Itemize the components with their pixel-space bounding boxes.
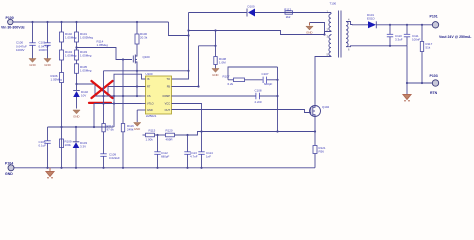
svg-text:1000V: 1000V bbox=[39, 48, 48, 52]
resistor R103 bbox=[75, 42, 92, 60]
connector P104 bbox=[5, 162, 14, 177]
secondary stubs bbox=[346, 22, 353, 25]
connector P103 bbox=[430, 74, 439, 95]
resistor R102 bbox=[60, 22, 77, 42]
wire return vertical bbox=[406, 46, 408, 94]
node Q100 source bbox=[136, 70, 138, 72]
svg-text:1nF: 1nF bbox=[206, 155, 211, 159]
svg-text:VTLO: VTLO bbox=[147, 102, 154, 106]
wire zener node to opto bbox=[77, 84, 96, 96]
primary winding 2 (aux) bbox=[330, 34, 332, 35]
zener D103 bbox=[73, 127, 88, 168]
svg-text:100nF: 100nF bbox=[412, 38, 421, 42]
ground power port (C101) bbox=[44, 59, 51, 68]
connector P100 bbox=[1, 16, 25, 30]
wire startup rail across bbox=[104, 70, 189, 72]
svg-text:1.05Meg: 1.05Meg bbox=[51, 78, 63, 82]
resistor R101 bbox=[75, 22, 94, 42]
svg-text:1.0M: 1.0M bbox=[219, 61, 226, 65]
svg-text:Vout 24V @ 250mA.: Vout 24V @ 250mA. bbox=[439, 35, 472, 39]
svg-text:TO: TO bbox=[167, 77, 171, 81]
svg-text:GND: GND bbox=[212, 73, 218, 77]
wire feedback vertical bus bbox=[277, 67, 279, 132]
capacitor C107 bbox=[262, 72, 278, 86]
svg-text:GND: GND bbox=[306, 31, 312, 35]
resistor R111 bbox=[102, 71, 114, 154]
svg-text:RT: RT bbox=[147, 85, 151, 89]
node dots on bottom rail bbox=[46, 167, 202, 169]
wire U100 IS pin mesh bbox=[114, 74, 146, 127]
wire top rail bbox=[13, 21, 169, 23]
svg-text:R107: R107 bbox=[223, 75, 230, 79]
wire U100 GND pin to ground bbox=[136, 110, 138, 122]
resistor R104 bbox=[60, 42, 77, 60]
svg-text:VCC: VCC bbox=[165, 102, 171, 106]
capacitor C105 bbox=[39, 127, 51, 168]
wire output rail bbox=[376, 24, 432, 26]
ground power port (C106) bbox=[212, 69, 219, 77]
wire bottom-left loop top bbox=[48, 126, 114, 128]
capacitor C111 bbox=[404, 25, 421, 46]
node dots on top rail bbox=[31, 21, 138, 23]
svg-text:97.6k: 97.6k bbox=[107, 128, 115, 132]
wire Q102 source to rail bbox=[314, 117, 316, 132]
pin 2 stub bbox=[325, 31, 332, 35]
wire y45.3 link bbox=[199, 45, 216, 47]
wire U100 OUT pin to Q102 gate bbox=[172, 110, 310, 113]
svg-text:1.05Meg: 1.05Meg bbox=[80, 69, 92, 73]
svg-text:GND: GND bbox=[73, 115, 79, 119]
wire secondary top to diode bbox=[353, 24, 369, 26]
wire x198 vertical bbox=[198, 46, 200, 87]
svg-text:249k: 249k bbox=[127, 128, 134, 132]
node (gate divider tap) bbox=[75, 46, 77, 48]
resistor R120 bbox=[166, 128, 175, 141]
svg-text:GND: GND bbox=[29, 63, 35, 67]
svg-text:4.7nF: 4.7nF bbox=[190, 155, 198, 159]
svg-text:100k: 100k bbox=[65, 143, 72, 147]
svg-text:1000V: 1000V bbox=[16, 48, 25, 52]
svg-text:GND: GND bbox=[134, 127, 140, 131]
wire snubber loop top bbox=[228, 67, 278, 80]
svg-text:D100: D100 bbox=[248, 5, 255, 9]
svg-text:CS: CS bbox=[147, 94, 151, 98]
svg-text:10V: 10V bbox=[81, 94, 86, 98]
connector P101 bbox=[430, 15, 439, 28]
node TO drop bbox=[187, 70, 189, 72]
chassis earth (bottom left) bbox=[46, 168, 54, 178]
ground power port (U100) bbox=[134, 123, 141, 131]
wire U100 CS pin bbox=[95, 95, 142, 97]
svg-text:1.00k: 1.00k bbox=[146, 138, 154, 142]
resistor R115 bbox=[146, 128, 156, 141]
svg-text:1.05Meg: 1.05Meg bbox=[80, 54, 92, 58]
zener D102 bbox=[73, 90, 88, 109]
resistor R109 bbox=[60, 139, 72, 148]
wire bottom rail bbox=[14, 167, 315, 169]
resistor R105 bbox=[75, 60, 92, 90]
capacitor C100 bbox=[16, 22, 36, 59]
wire U100 TO pin riser bbox=[172, 71, 189, 79]
svg-text:1.05Meg: 1.05Meg bbox=[65, 54, 77, 58]
svg-text:680pF: 680pF bbox=[264, 82, 273, 86]
wire secondary return bbox=[353, 45, 408, 47]
svg-text:RTN: RTN bbox=[430, 91, 438, 95]
transistor Q102 bbox=[310, 105, 330, 117]
wire VTLO drop to bias loop bbox=[93, 104, 95, 128]
wire HV rail after diode bbox=[255, 12, 331, 14]
svg-text:3.3uF: 3.3uF bbox=[395, 38, 403, 42]
diode D101 bbox=[367, 13, 376, 28]
svg-text:GND: GND bbox=[5, 172, 13, 176]
svg-text:P101: P101 bbox=[430, 15, 438, 19]
svg-text:Q100: Q100 bbox=[143, 55, 151, 59]
capacitor C108 bbox=[255, 89, 278, 105]
capacitor C110 bbox=[387, 25, 403, 46]
wire opto collector stub bbox=[107, 87, 109, 97]
primary winding 1 bbox=[330, 13, 332, 15]
svg-text:499R: 499R bbox=[166, 138, 173, 142]
resistor R117 bbox=[420, 25, 432, 83]
svg-text:R56: R56 bbox=[319, 150, 325, 154]
red X annotation bbox=[89, 81, 113, 103]
svg-text:R112: R112 bbox=[284, 8, 291, 12]
svg-text:3.3V: 3.3V bbox=[80, 145, 86, 149]
chassis earth (output) bbox=[403, 95, 411, 101]
wire U100 VCC pin to decoupling bbox=[172, 104, 202, 152]
transistor Q100 bbox=[133, 54, 150, 65]
wire comp bus to Q102 source sense bbox=[175, 132, 316, 136]
node zener top bbox=[75, 83, 77, 85]
wire return to P103 bbox=[407, 82, 432, 84]
wire HV vertical x188 bbox=[188, 36, 190, 71]
wire bbox=[155, 134, 166, 136]
wire clamp GND line bbox=[189, 31, 325, 35]
secondary winding bbox=[346, 22, 348, 47]
svg-text:680pF: 680pF bbox=[161, 155, 170, 159]
svg-text:LM5021: LM5021 bbox=[146, 114, 157, 118]
wire U100 VTLO pin bbox=[94, 103, 142, 105]
resistor R116 bbox=[121, 60, 134, 168]
svg-text:51k: 51k bbox=[426, 46, 431, 50]
ground power port (zener) bbox=[73, 110, 80, 119]
wire transformer bottom to Q102 drain bbox=[315, 56, 331, 106]
resistor R114 label bbox=[97, 40, 109, 48]
resistor R108 bbox=[214, 29, 227, 68]
resistor R106 bbox=[51, 60, 64, 168]
svg-text:COMP: COMP bbox=[162, 94, 170, 98]
svg-text:1.05Meg: 1.05Meg bbox=[97, 43, 109, 47]
wire rail step to HV rail bbox=[169, 13, 189, 36]
capacitor C113 bbox=[184, 135, 197, 168]
wire divider tap to gate network bbox=[77, 48, 133, 60]
wire U100 COMP pin right bbox=[172, 95, 256, 97]
svg-text:20.3k: 20.3k bbox=[140, 36, 148, 40]
wire U100 FB pin right bbox=[172, 86, 199, 88]
svg-text:Q102: Q102 bbox=[322, 105, 330, 109]
resistor R100 bbox=[135, 22, 148, 54]
svg-text:1.005Meg: 1.005Meg bbox=[80, 36, 93, 40]
wire opto to U100 FB bbox=[108, 86, 146, 88]
transformer T100 bbox=[325, 2, 353, 58]
svg-text:2.2nF: 2.2nF bbox=[255, 100, 263, 104]
svg-text:OUT: OUT bbox=[165, 108, 171, 112]
capacitor C101 bbox=[39, 22, 51, 59]
U100 left pin stubs bbox=[137, 79, 145, 110]
svg-text:GND: GND bbox=[44, 63, 50, 67]
svg-text:C108: C108 bbox=[255, 89, 262, 93]
capacitor C109 bbox=[100, 153, 120, 168]
svg-text:P103: P103 bbox=[430, 74, 438, 78]
svg-text:R115: R115 bbox=[149, 128, 156, 132]
node bbox=[197, 85, 199, 87]
svg-text:1.05Meg: 1.05Meg bbox=[65, 36, 77, 40]
svg-text:U100: U100 bbox=[146, 72, 153, 76]
resistor R107 on snubber line bbox=[223, 75, 263, 87]
svg-text:FB: FB bbox=[167, 85, 171, 89]
svg-text:R120: R120 bbox=[166, 128, 173, 132]
wire compensation bus bbox=[143, 134, 146, 136]
svg-text:C107: C107 bbox=[262, 72, 269, 76]
wire HV rail bbox=[189, 12, 247, 14]
U100 pin names bbox=[147, 77, 170, 112]
node dots output bbox=[389, 24, 423, 47]
svg-text:Vin 30-300Vdc: Vin 30-300Vdc bbox=[1, 26, 25, 30]
wire Q100 source stub bbox=[136, 65, 138, 71]
core bbox=[338, 11, 340, 58]
ground power port (C100) bbox=[29, 59, 36, 68]
wire source sense column bbox=[136, 71, 138, 96]
diode D100 bbox=[247, 5, 255, 17]
ground power port (clamp) bbox=[306, 23, 326, 36]
resistor R121 bbox=[313, 132, 326, 168]
resistor R112 bbox=[284, 8, 292, 19]
svg-text:0.022uF: 0.022uF bbox=[109, 156, 120, 160]
op-amp U100 controller body bbox=[146, 72, 172, 118]
svg-text:0.1uF: 0.1uF bbox=[39, 144, 47, 148]
svg-text:2k2: 2k2 bbox=[286, 15, 291, 19]
svg-text:ES1D: ES1D bbox=[367, 17, 375, 21]
capacitor C114 bbox=[198, 151, 213, 168]
svg-text:T100: T100 bbox=[330, 2, 337, 6]
svg-text:6.2k: 6.2k bbox=[228, 82, 234, 86]
svg-text:IS: IS bbox=[147, 77, 150, 81]
svg-text:GND: GND bbox=[147, 108, 153, 112]
capacitor C112 bbox=[154, 135, 169, 168]
